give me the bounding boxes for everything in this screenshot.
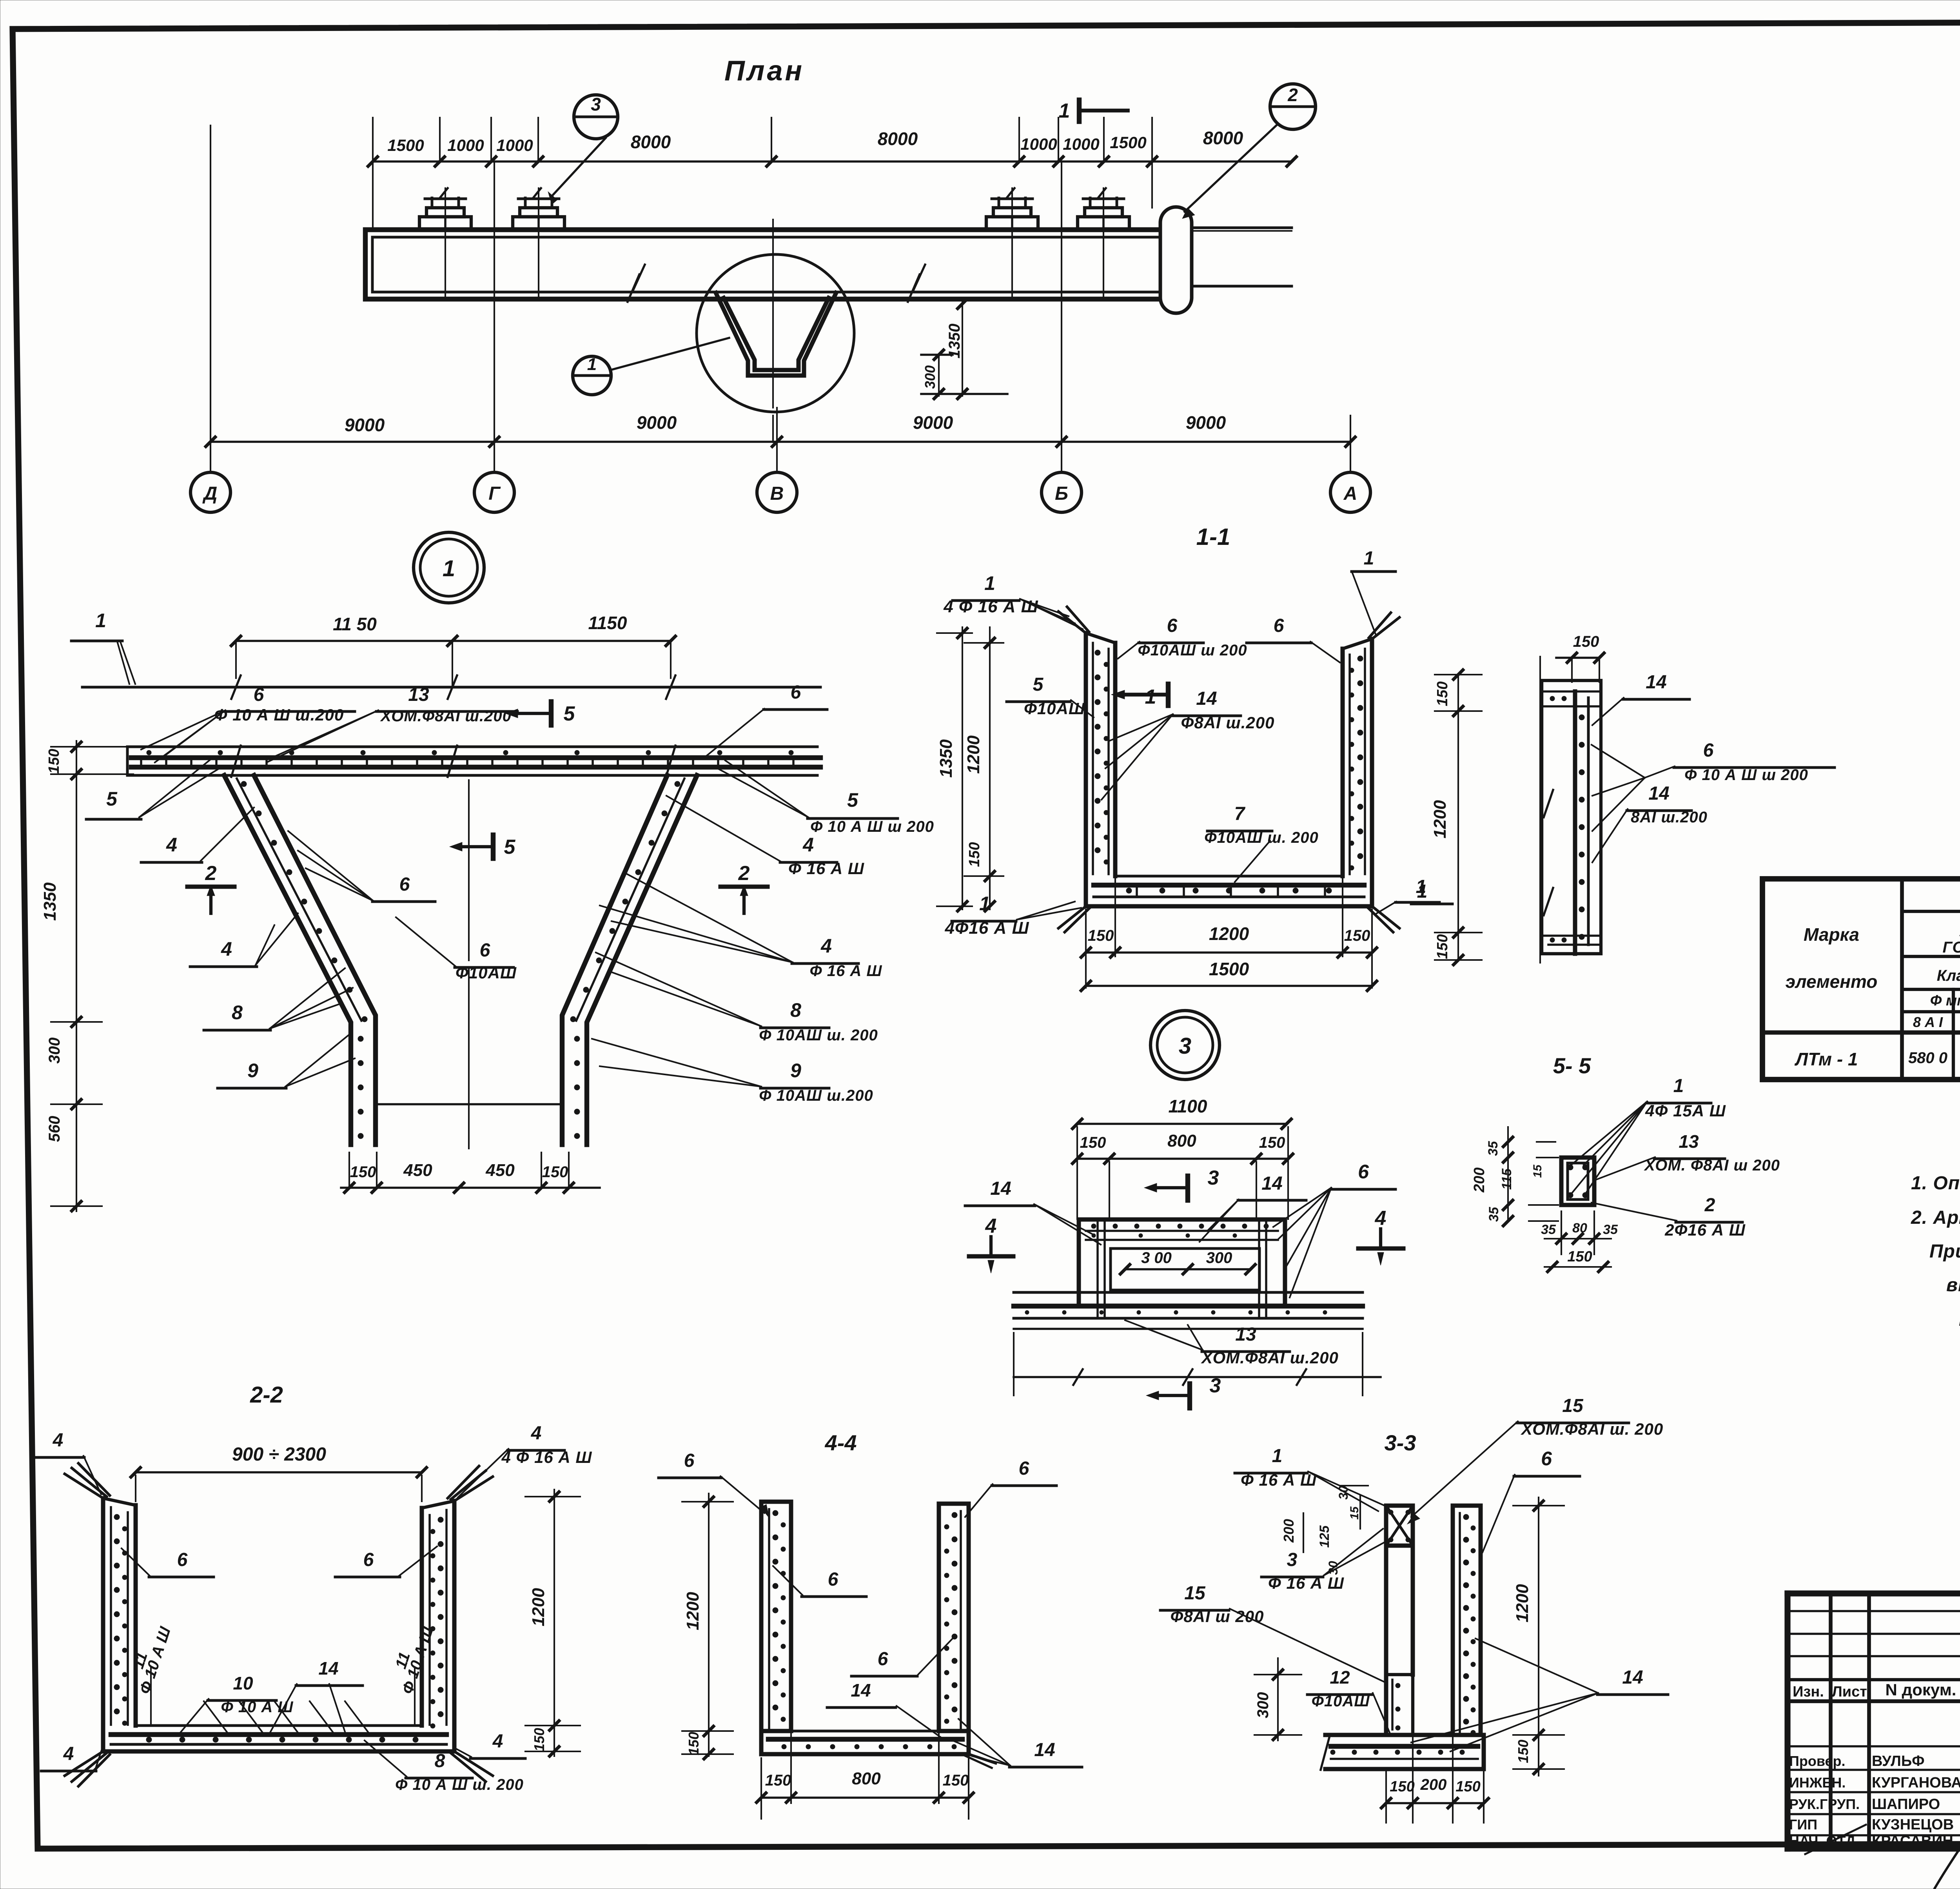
svg-text:4: 4 [820,935,832,957]
dim 1350/300 right of beam [962,299,963,396]
detail balloon 3 big [1151,1011,1220,1080]
3-3 dim 300 left [1277,1658,1279,1740]
svg-text:150: 150 [1080,1134,1106,1151]
svg-text:Ф 10 А Ш ш.200: Ф 10 А Ш ш.200 [214,706,344,724]
svg-text:3: 3 [591,94,601,114]
svg-text:13: 13 [408,684,429,705]
big detail circle of trough [697,254,854,412]
detail3 rebar between [1086,1230,1278,1232]
svg-text:150: 150 [1515,1740,1531,1763]
svg-text:14: 14 [318,1658,338,1679]
title block left grid verticals [1829,1593,1833,1849]
2-2 corner flares [65,1474,103,1498]
svg-text:14: 14 [1622,1667,1643,1688]
detail3 dots [1091,1224,1096,1228]
2-2 bottom slab [101,1726,105,1751]
1-1 corner mark 1 bottomright [1396,901,1439,904]
svg-text:8000: 8000 [1203,128,1243,148]
svg-text:ВУЛЬФ: ВУЛЬФ [1872,1753,1925,1769]
svg-text:6: 6 [1703,740,1714,761]
svg-text:6: 6 [1541,1448,1552,1470]
detail3 section mark 4 right [1358,1247,1403,1251]
svg-text:150: 150 [1434,681,1451,706]
fan wall rebar dots [241,781,247,787]
svg-text:1500: 1500 [1209,959,1249,979]
svg-text:300: 300 [1206,1249,1232,1267]
svg-text:150: 150 [1573,633,1599,650]
svg-text:Б: Б [1055,483,1068,504]
svg-text:3: 3 [1287,1550,1298,1570]
3-3 right wall [1451,1506,1455,1735]
svg-text:3 00: 3 00 [1141,1249,1172,1267]
svg-text:внахлестку длина перепуска: внахлестку длина перепуска должна быть н… [1946,1275,1960,1296]
2-2 left wall [101,1498,105,1726]
svg-text:8АI ш.200: 8АI ш.200 [1631,809,1708,826]
wall element left dim chain [1457,675,1459,960]
section mark 2 left [187,885,234,889]
svg-text:4: 4 [63,1744,74,1764]
embedded plate pad at x=2582 [986,217,1038,230]
svg-text:1: 1 [1059,100,1070,122]
wall element dots [1579,715,1584,720]
svg-text:14: 14 [1034,1740,1055,1760]
svg-text:150: 150 [1567,1248,1592,1265]
svg-text:1: 1 [95,610,106,631]
svg-text:35: 35 [1486,1207,1501,1222]
svg-text:1: 1 [1364,548,1374,569]
svg-text:150: 150 [686,1732,702,1755]
svg-text:1-1: 1-1 [1196,524,1230,550]
svg-text:1200: 1200 [529,1588,548,1626]
fan deck slab lines [127,746,817,748]
beam break marks [628,274,639,302]
3-3 lower boxed segment of left wall [1386,1675,1413,1735]
svg-text:Д: Д [202,483,218,504]
detail balloon 1 of plan [573,356,611,395]
svg-text:Марка: Марка [1804,924,1859,945]
svg-text:6: 6 [399,874,410,895]
1-1 corner flares [1058,612,1086,633]
svg-text:1000: 1000 [1020,135,1057,153]
embedded plate pad at x=2815 [1078,217,1129,230]
svg-text:ШАПИРО: ШАПИРО [1872,1796,1940,1813]
svg-text:2: 2 [1704,1195,1715,1216]
2-2 dim 900-2300 [136,1471,422,1473]
svg-text:При с тыковании атдельных: При с тыковании атдельных отрезков [1929,1241,1960,1262]
svg-text:Ф8АI ш.200: Ф8АI ш.200 [1181,713,1275,732]
svg-text:150: 150 [350,1163,376,1181]
2-2 right dim chain [554,1490,555,1756]
top dimension extension lines [372,118,374,161]
wall element dim 150 top [1556,657,1599,659]
svg-text:6: 6 [828,1569,838,1590]
svg-text:Ф 16 А Ш: Ф 16 А Ш [1241,1471,1317,1489]
svg-text:9000: 9000 [913,412,953,433]
svg-text:Ф10АШ ш. 200: Ф10АШ ш. 200 [1204,829,1318,846]
svg-text:12: 12 [1330,1667,1350,1688]
svg-text:РУК.ГРУП.: РУК.ГРУП. [1789,1796,1860,1812]
svg-text:9: 9 [247,1060,258,1082]
svg-text:1: 1 [1145,686,1156,708]
svg-text:3: 3 [1208,1167,1219,1189]
svg-text:2. Арматура по з. 1 за: 2. Арматура по з. 1 за ка зана общей дли… [1911,1207,1960,1228]
fan bottom level line [376,1103,562,1105]
svg-text:14: 14 [1646,672,1666,693]
svg-text:1. Опалубку см. на лист: 1. Опалубку см. на листе КЖ-10 [1911,1173,1960,1194]
wall element inner lines [1542,690,1601,693]
svg-text:35: 35 [1541,1222,1556,1237]
plan beam outer outline [365,230,1160,299]
deck hatch ticks [140,758,142,767]
svg-text:ХОМ.Ф8АI ш. 200: ХОМ.Ф8АI ш. 200 [1521,1420,1663,1438]
svg-text:1200: 1200 [1430,800,1450,838]
svg-text:Ф 10 А Ш ш 200: Ф 10 А Ш ш 200 [810,818,934,835]
fan right slanted wall [587,775,697,1145]
svg-text:ГОСТ 5781- 61: ГОСТ 5781- 61 [1943,939,1960,956]
svg-text:6: 6 [480,940,490,961]
detail balloon 3 [574,95,618,139]
fan bottom dim line [341,1187,600,1189]
1-1 bottom dim lines [1086,951,1372,954]
4-4 left dim chain [708,1493,710,1756]
svg-text:6: 6 [177,1550,188,1570]
svg-text:15: 15 [1184,1583,1206,1604]
svg-text:14: 14 [851,1680,871,1700]
5-5 column section box [1561,1158,1594,1205]
4-4 right wall [939,1504,969,1731]
svg-text:150: 150 [1344,927,1370,944]
svg-text:3: 3 [1210,1374,1221,1397]
svg-text:Ф 16 А Ш: Ф 16 А Ш [809,962,882,980]
embedded plate pad at x=1374 [513,217,564,230]
detail3 dims 150 800 150 [1077,1158,1288,1160]
fan left dim chain [76,741,77,1211]
svg-text:6: 6 [254,684,264,705]
axis circles [210,442,211,473]
svg-text:125: 125 [1317,1525,1332,1548]
svg-text:150: 150 [765,1772,791,1789]
svg-text:1200: 1200 [683,1592,702,1630]
svg-text:4: 4 [492,1731,503,1752]
svg-text:300: 300 [46,1038,63,1064]
svg-text:ХОМ.Ф8АI ш.200: ХОМ.Ф8АI ш.200 [380,708,512,725]
svg-text:А: А [1343,483,1357,504]
plan beam inner outline [372,237,1161,292]
1-1 left wall dots [1095,650,1100,655]
svg-text:Ф8АI ш 200: Ф8АI ш 200 [1171,1607,1264,1626]
svg-text:1500: 1500 [387,136,424,154]
svg-text:1350: 1350 [946,324,963,359]
fan inner rebar lines on walls [237,778,361,1021]
svg-text:13: 13 [1235,1324,1256,1345]
svg-text:150: 150 [46,749,62,773]
svg-text:6: 6 [791,682,801,703]
svg-text:200: 200 [1471,1167,1488,1192]
svg-text:ИНЖЕН.: ИНЖЕН. [1789,1775,1846,1791]
svg-text:2-2: 2-2 [250,1382,283,1408]
dim 1150+1150 over fan [236,640,671,642]
4-4 left wall [761,1502,791,1731]
svg-text:200: 200 [1281,1519,1297,1543]
svg-text:Ф10АШ: Ф10АШ [1024,699,1085,718]
svg-text:6: 6 [1274,615,1284,636]
3-3 bottom dims [1386,1802,1484,1804]
svg-text:1: 1 [984,572,995,594]
svg-text:15: 15 [1562,1395,1584,1416]
svg-text:КУРГАНОВА: КУРГАНОВА [1872,1775,1960,1791]
svg-text:6: 6 [1358,1161,1369,1183]
svg-text:13: 13 [1679,1131,1699,1152]
svg-text:Ф 10 А Ш ш. 200: Ф 10 А Ш ш. 200 [395,1776,524,1793]
svg-text:2Ф16 А Ш: 2Ф16 А Ш [1664,1221,1746,1239]
svg-text:Ф 16 А Ш: Ф 16 А Ш [1268,1574,1344,1592]
1-1 slab hatch [1136,885,1138,897]
svg-text:115: 115 [1499,1168,1514,1190]
svg-text:1: 1 [587,355,597,374]
title block signer rows [1788,1745,1960,1747]
svg-text:1350: 1350 [40,882,60,921]
svg-text:2: 2 [205,862,217,885]
svg-text:4-4: 4-4 [825,1430,857,1455]
1-1 bottom slab [1084,876,1088,906]
svg-text:1200: 1200 [964,735,983,774]
anchor pill at beam right end [1160,207,1192,313]
3-3 dims top small [1359,1495,1361,1529]
svg-text:3: 3 [1179,1033,1191,1059]
svg-text:Ф 10АШ ш.200: Ф 10АШ ш.200 [759,1087,873,1104]
svg-text:8: 8 [790,999,801,1021]
3-3 bottom slab [1325,1733,1484,1737]
section mark 5 mid [491,835,495,858]
detail3 section mark 3 bottom [1187,1384,1192,1408]
svg-text:6: 6 [878,1649,888,1669]
svg-text:14: 14 [1261,1173,1282,1194]
detail3 vertical bars [1096,1221,1099,1317]
detail3 inner opening [1111,1248,1259,1290]
svg-text:5: 5 [564,702,575,725]
2-2 hatch slashes on slab [204,1701,227,1733]
svg-text:5: 5 [847,789,858,811]
5-5 left dims [1537,1141,1555,1143]
svg-text:1200: 1200 [1209,924,1249,944]
svg-text:КРАСАВИН: КРАСАВИН [1872,1833,1953,1849]
svg-text:9000: 9000 [345,415,385,435]
top dimension line [373,160,1292,163]
svg-text:8 А I: 8 А I [1913,1014,1943,1030]
svg-text:9: 9 [790,1060,801,1082]
detail3 slab edge lines [1014,1291,1363,1294]
fan left slanted wall [224,775,351,1145]
svg-text:80: 80 [1572,1221,1587,1236]
svg-text:580 0: 580 0 [1908,1049,1947,1067]
steel table data row separator [1762,1031,1960,1035]
svg-text:800: 800 [852,1769,881,1788]
fan section top bar line poz1 [82,686,820,689]
svg-text:11 50: 11 50 [333,614,377,634]
svg-text:2: 2 [738,862,750,885]
svg-text:8: 8 [232,1002,243,1023]
svg-text:1350: 1350 [936,739,956,778]
3-3 top box [1386,1506,1413,1546]
svg-text:Ф 10 А Ш ш 200: Ф 10 А Ш ш 200 [1684,766,1808,784]
steel table outer frame [1762,879,1960,1080]
svg-text:6: 6 [1167,615,1178,636]
plan centerline through trough [772,220,774,408]
svg-text:6: 6 [363,1550,374,1570]
1-1 right wall dots [1357,656,1363,661]
svg-text:150: 150 [1434,934,1451,959]
svg-text:300: 300 [922,365,938,389]
trough funnel outer profile [716,293,836,376]
svg-text:150: 150 [1390,1778,1414,1795]
steel table verticals [1900,879,1904,1080]
1-1 slab dots [1126,888,1132,893]
svg-text:4 Ф 16 А Ш: 4 Ф 16 А Ш [501,1448,592,1466]
svg-text:Ф10АШ ш 200: Ф10АШ ш 200 [1138,642,1247,659]
svg-text:450: 450 [403,1161,432,1180]
4-4 bottom slab [759,1731,764,1754]
wall element left extension line [1539,657,1541,963]
svg-text:300: 300 [1254,1692,1272,1718]
1-1 right wall [1370,639,1374,876]
detail3 bottom long dim [1014,1376,1381,1378]
svg-text:200: 200 [1420,1776,1447,1793]
svg-text:1: 1 [1272,1446,1283,1466]
svg-text:8: 8 [435,1751,445,1771]
svg-text:4: 4 [1375,1207,1387,1230]
title block left thin rows [1788,1610,1960,1612]
svg-text:1200: 1200 [1513,1584,1532,1622]
svg-text:1: 1 [1673,1076,1684,1096]
svg-text:560: 560 [46,1116,63,1142]
5-5 bottom dims [1561,1211,1562,1254]
svg-text:7: 7 [1234,804,1246,824]
svg-text:5- 5: 5- 5 [1553,1053,1591,1078]
svg-text:N докум.: N докум. [1886,1680,1956,1699]
svg-text:Провер.: Провер. [1789,1753,1846,1769]
1-1 left dim chains [962,627,963,909]
1-1 corner mark 1 topright [1352,570,1396,573]
svg-text:2: 2 [1287,85,1298,105]
svg-text:1000: 1000 [1063,135,1099,153]
svg-text:ХОМ. Ф8АI ш 200: ХОМ. Ф8АI ш 200 [1644,1157,1780,1174]
trough funnel inner profile [724,298,829,370]
wall element plan outline [1542,680,1601,954]
svg-text:150: 150 [531,1728,547,1751]
svg-text:150: 150 [542,1163,568,1181]
detail3 section mark 4 left [969,1254,1013,1259]
svg-text:800: 800 [1167,1131,1196,1150]
svg-text:ЛТм - 1: ЛТм - 1 [1794,1049,1858,1069]
svg-text:1100: 1100 [1169,1096,1207,1116]
svg-text:1000: 1000 [496,136,533,154]
axis dimension line 9000 row [211,441,1350,443]
detail3 outer box [1079,1219,1285,1306]
section mark 1 top [1077,100,1082,122]
svg-text:450: 450 [485,1161,515,1180]
steel table horizontals [1902,910,1960,913]
section title balloon 1 big [414,532,484,603]
svg-text:150: 150 [1259,1134,1285,1151]
svg-text:15: 15 [1348,1506,1361,1520]
detail balloon 2 [1270,84,1316,129]
svg-text:6: 6 [684,1450,695,1471]
svg-text:10: 10 [233,1673,253,1693]
3-3 dim 1200 right [1538,1497,1539,1776]
svg-text:В: В [770,483,784,504]
svg-text:5: 5 [106,788,118,810]
svg-text:Г: Г [488,483,501,504]
svg-text:4: 4 [802,834,814,856]
svg-text:150: 150 [966,842,983,867]
svg-text:35: 35 [1486,1141,1501,1156]
svg-text:КУЗНЕЦОВ: КУЗНЕЦОВ [1872,1816,1954,1833]
svg-text:150: 150 [943,1772,969,1789]
svg-text:8000: 8000 [631,132,671,152]
embedded plate pad at x=1136 [419,217,471,230]
svg-text:4: 4 [531,1423,542,1444]
2-2 right wall [452,1501,457,1726]
svg-text:5: 5 [1033,674,1044,695]
section mark 5 top [549,702,554,725]
svg-text:14: 14 [1196,688,1217,709]
svg-text:35: 35 [1603,1222,1618,1237]
svg-text:4: 4 [166,834,177,856]
detail3 dim 1100 [1077,1123,1287,1125]
3-3 left wall with top box [1384,1546,1388,1735]
deck rebar dots [147,750,151,755]
axis extension verticals [210,125,211,442]
section mark 2 right [720,885,768,889]
svg-text:4: 4 [53,1430,64,1451]
svg-text:14: 14 [1648,783,1669,804]
svg-text:5: 5 [504,836,516,858]
svg-text:Ф10АШ: Ф10АШ [1312,1693,1370,1710]
1-1 left wall rebar lines [1092,643,1094,874]
svg-text:4: 4 [985,1215,997,1238]
svg-text:4Ф 15А Ш: 4Ф 15А Ш [1645,1101,1726,1120]
svg-text:150: 150 [1455,1778,1480,1795]
svg-text:1500: 1500 [1110,133,1146,152]
1-1 right wall rebar lines [1364,649,1366,874]
svg-text:Класс А I: Класс А I [1937,967,1960,984]
detail3 300 300 dims [1125,1268,1250,1270]
svg-text:150: 150 [1088,927,1114,944]
svg-text:Ф мм: Ф мм [1930,993,1960,1009]
svg-text:Изн.: Изн. [1793,1684,1824,1700]
svg-text:3-3: 3-3 [1385,1430,1416,1455]
svg-text:15: 15 [1531,1164,1544,1178]
1-1 left wall [1084,633,1088,876]
svg-text:4: 4 [221,938,232,960]
svg-text:Лист: Лист [1832,1684,1867,1700]
svg-text:1150: 1150 [588,613,627,633]
svg-text:ГИП: ГИП [1789,1816,1817,1833]
svg-text:4Ф16 А Ш: 4Ф16 А Ш [944,918,1029,938]
detail3 section mark 3 top [1185,1176,1190,1200]
svg-text:ХОМ.Ф8АI ш.200: ХОМ.Ф8АI ш.200 [1201,1348,1339,1367]
4-4 bottom dims [761,1796,969,1799]
svg-text:900 ÷ 2300: 900 ÷ 2300 [232,1444,326,1465]
svg-text:Ф 10АШ ш. 200: Ф 10АШ ш. 200 [759,1027,878,1044]
svg-text:1000: 1000 [447,136,484,154]
svg-text:элементо: элементо [1786,971,1878,992]
plan beam right end lines to sheet cut [1192,227,1292,229]
svg-text:1: 1 [443,556,455,581]
fan centerline [468,780,470,960]
svg-text:9000: 9000 [1186,412,1226,433]
svg-text:1: 1 [1416,876,1426,897]
